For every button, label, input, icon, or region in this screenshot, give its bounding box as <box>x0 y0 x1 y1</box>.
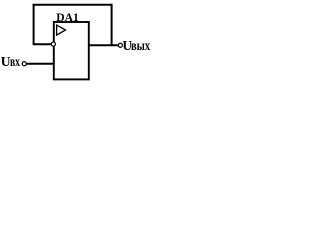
wire inverting input (to circle) <box>33 43 51 45</box>
wire feedback top horizontal <box>33 4 113 6</box>
wire feedback left vertical <box>33 4 35 44</box>
wire non-inverting input <box>26 63 55 65</box>
label Uvx input <box>1 55 11 69</box>
output terminal circle <box>118 43 122 47</box>
label DA1 <box>56 12 79 24</box>
op-amp amplifier triangle symbol <box>57 25 66 35</box>
op-amp U1 body rectangle DA1 <box>54 22 89 79</box>
input terminal circle <box>22 62 26 66</box>
wire feedback right vertical <box>111 4 113 45</box>
wire output <box>88 44 118 46</box>
label Uvyx output <box>122 39 132 53</box>
inversion circle at inverting input pin <box>51 42 55 46</box>
